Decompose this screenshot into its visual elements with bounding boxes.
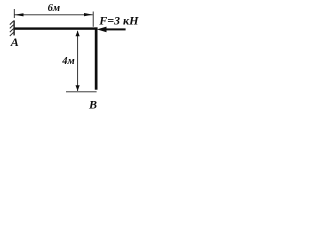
svg-text:A: A	[10, 35, 19, 49]
svg-text:4м: 4м	[61, 56, 74, 67]
svg-text:6м: 6м	[48, 3, 60, 14]
svg-text:F=3 кН: F=3 кН	[98, 13, 139, 27]
svg-text:B: B	[88, 98, 97, 112]
